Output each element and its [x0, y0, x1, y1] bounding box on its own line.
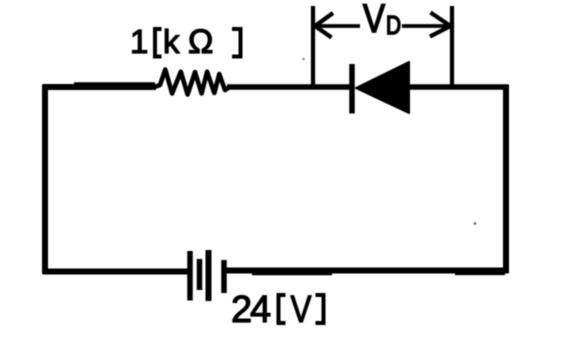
svg-text:Ω: Ω	[188, 23, 213, 61]
battery B1 plate short 2	[221, 260, 227, 293]
battery B1 plate short 1	[197, 259, 203, 290]
svg-text:4: 4	[250, 289, 271, 331]
dimension arrowhead left	[315, 13, 333, 38]
wire top middle (resistor to diode)	[227, 84, 351, 89]
label VD	[363, 0, 401, 41]
dimension tick right (cathode node)	[450, 6, 454, 87]
wire left vertical	[42, 85, 48, 274]
dimension arrow left shaft	[315, 24, 360, 28]
label 1[kΩ]	[130, 23, 241, 61]
battery B1 plate long 1	[187, 251, 193, 301]
svg-text:V: V	[291, 289, 313, 331]
svg-text:k: k	[163, 23, 180, 60]
speck near left tick	[302, 58, 305, 61]
dimension arrow right shaft	[402, 24, 450, 28]
svg-text:D: D	[386, 10, 401, 40]
speck right side	[474, 222, 477, 225]
wire bottom scan thickening	[252, 273, 332, 276]
wire bottom (left segment, corner to battery)	[43, 269, 189, 275]
dimension tick left (anode node)	[311, 6, 315, 87]
diode D1 cathode bar	[349, 64, 355, 114]
resistor R1 1[kΩ]	[153, 70, 229, 95]
label 24[V]	[231, 289, 324, 331]
wire top right (diode to corner)	[407, 84, 509, 89]
wire bottom (right segment, battery to corner)	[226, 268, 509, 274]
diode D1 triangle	[356, 62, 409, 113]
wire right vertical	[503, 85, 509, 274]
svg-text:1: 1	[130, 23, 148, 60]
svg-text:V: V	[363, 0, 385, 41]
wire top-left horizontal	[43, 84, 157, 90]
dimension arrowhead right	[430, 13, 451, 37]
wire top-left scan thickening	[74, 82, 155, 85]
svg-text:2: 2	[231, 289, 252, 331]
battery B1 plate long 2	[206, 250, 212, 301]
